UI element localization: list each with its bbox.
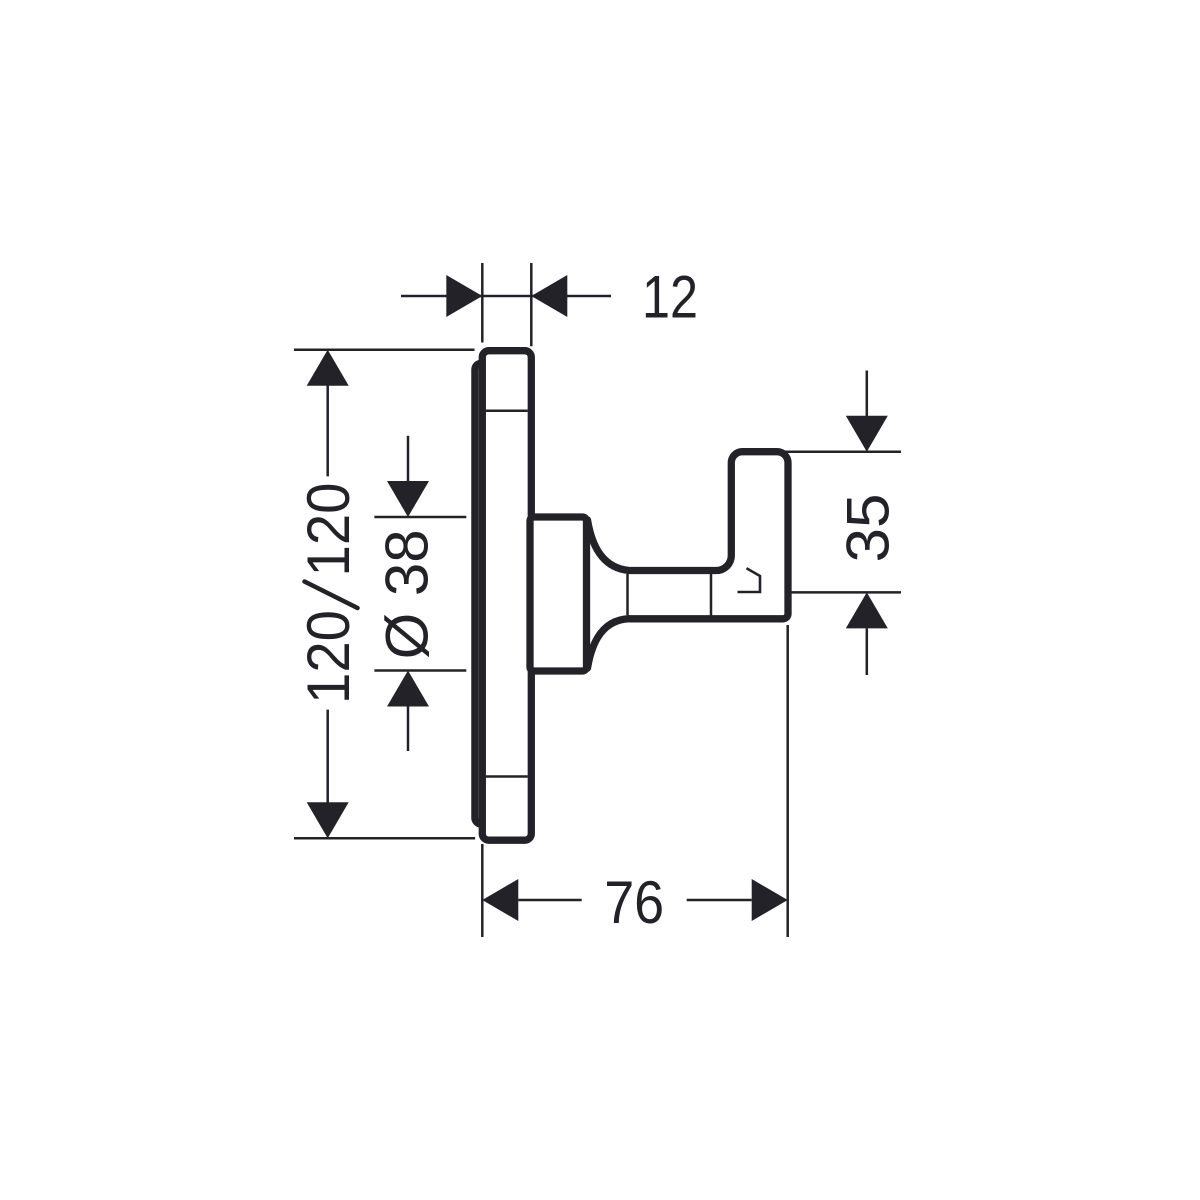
- dim 12 arrow right: [531, 275, 567, 317]
- back plate (wall escutcheon rear): [475, 363, 520, 824]
- hook body outline: [630, 452, 788, 619]
- dim 35 upper stem: [866, 371, 869, 417]
- neck silhouette line right: [710, 574, 713, 616]
- dim 76 arrow right: [752, 879, 788, 921]
- plate parting line bottom: [486, 775, 528, 778]
- svg-text:120: 120: [295, 610, 362, 704]
- dim 76 extension line right: [786, 625, 789, 937]
- dim 120/120 line upper stem: [326, 385, 329, 476]
- dim d38 arrow up: [387, 671, 429, 707]
- dim 120/120 extension line top: [294, 348, 475, 351]
- svg-text:120: 120: [295, 483, 362, 577]
- dim 35 extension line top: [785, 450, 901, 453]
- plate parting line top: [486, 409, 528, 412]
- svg-text:35: 35: [835, 494, 902, 563]
- dim 120/120 arrow down: [307, 802, 349, 838]
- dim 12 extension line right: [530, 263, 533, 346]
- svg-text:12: 12: [642, 264, 698, 331]
- dim 76 right stem: [687, 899, 752, 902]
- dim 12 extension line left: [481, 263, 484, 343]
- dim 76 arrow left: [482, 879, 518, 921]
- dim 120/120 arrow up: [307, 350, 349, 386]
- dim 76 left stem: [518, 899, 581, 902]
- dim 76 extension line left: [481, 844, 484, 937]
- front plate (escutcheon 120x120): [482, 351, 531, 841]
- trumpet top contour: [588, 520, 630, 571]
- dim text 120/120 slash: [305, 582, 358, 609]
- svg-text:76: 76: [604, 869, 664, 936]
- dim d38 upper stem: [407, 436, 410, 482]
- dim 12 arrow left: [446, 275, 482, 317]
- trumpet bottom contour: [588, 619, 630, 668]
- dim 120/120 extension line bottom: [294, 837, 475, 840]
- dim 120/120 line lower stem: [326, 710, 329, 803]
- neck silhouette line left: [626, 574, 629, 615]
- dim 35 arrow down: [846, 416, 888, 452]
- svg-text:Ø 38: Ø 38: [374, 529, 441, 659]
- dim d38 arrow down: [387, 481, 429, 517]
- dim d38 extension line bottom: [374, 669, 466, 672]
- rosette block (d38 side view): [530, 517, 587, 671]
- dim d38 extension line top: [374, 516, 466, 519]
- dim 35 extension line bottom: [791, 591, 901, 594]
- dim 35 arrow up: [846, 592, 888, 628]
- dim 35 lower stem: [866, 628, 869, 675]
- dim d38 lower stem: [407, 707, 410, 752]
- hook seam mark: [738, 568, 761, 592]
- dim 12 line: [401, 295, 611, 298]
